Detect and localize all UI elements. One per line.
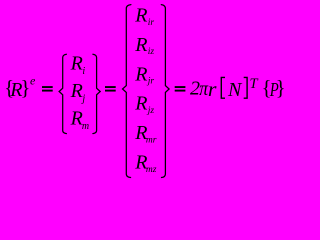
open brace of 6-vector <box>123 5 131 178</box>
svg-text:r: r <box>208 79 217 101</box>
svg-text:e: e <box>30 74 36 88</box>
close brace of 3-vector <box>93 54 100 133</box>
svg-text:jz: jz <box>146 106 155 116</box>
open bracket <box>221 77 225 98</box>
svg-text:mz: mz <box>146 165 157 175</box>
svg-text:mr: mr <box>146 135 157 145</box>
svg-text:i: i <box>82 66 85 77</box>
close bracket <box>244 77 247 98</box>
svg-text:m: m <box>82 121 89 132</box>
svg-text:R: R <box>70 53 83 75</box>
svg-text:R: R <box>134 34 147 56</box>
open brace of 3-vector <box>59 54 66 133</box>
svg-text:T: T <box>250 76 259 92</box>
svg-text:R: R <box>70 80 83 102</box>
svg-text:R: R <box>70 108 83 130</box>
svg-text:iz: iz <box>148 47 155 57</box>
svg-text:}: } <box>276 76 286 100</box>
close brace of 6-vector <box>161 5 169 178</box>
svg-text:R: R <box>134 93 147 115</box>
svg-text:}: } <box>20 76 30 100</box>
svg-text:R: R <box>134 5 147 27</box>
equals sign 2 <box>105 86 116 88</box>
equals sign 1 <box>42 86 53 88</box>
svg-text:R: R <box>134 63 147 85</box>
svg-text:N: N <box>227 79 243 101</box>
equals sign 3 <box>175 86 186 88</box>
svg-text:ir: ir <box>148 18 155 28</box>
svg-text:jr: jr <box>146 77 155 87</box>
